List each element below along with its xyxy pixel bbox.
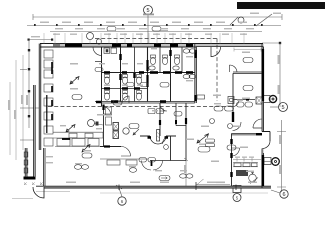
dimension line top with column dots	[27, 25, 281, 27]
left outer dim lines	[9, 82, 11, 155]
top wall poche segments	[53, 44, 193, 47]
circle tags	[87, 17, 245, 135]
door arc vestibule corner	[93, 47, 102, 56]
bubble bottom left	[118, 197, 126, 205]
dimension line top outer	[33, 14, 282, 20]
partition x170 storage room	[170, 136, 172, 161]
dim short left wing	[28, 39, 52, 41]
office dim line + office divider wall y72	[233, 72, 262, 73]
leader to title bar	[256, 14, 272, 26]
restroom stall wall mid	[102, 72, 195, 74]
toilets restrooms row1	[104, 75, 141, 101]
exam tables lower rooms	[159, 176, 170, 181]
door arc exam room	[246, 98, 249, 100]
room tag ovals	[72, 27, 253, 159]
sink counter right lower	[234, 163, 241, 167]
WALLS	[24, 44, 272, 199]
left dim tick	[20, 70, 40, 141]
door arc in top wall	[211, 47, 221, 57]
wall x186	[185, 103, 187, 161]
bottom wall ticks	[119, 182, 236, 190]
keynote flags (diagonal arrows)	[66, 77, 209, 153]
toilets mens	[150, 55, 179, 65]
cased opening wall y136 with arch and door leaf	[140, 135, 176, 137]
restroom west wall	[101, 47, 103, 107]
top exterior wall	[40, 43, 263, 45]
title bar (solid black)	[237, 2, 325, 9]
left dim line with dots	[28, 40, 30, 129]
right exterior wall	[262, 44, 264, 132]
left wall end poche	[24, 177, 36, 180]
dashed overhang line top	[95, 38, 217, 40]
FIXTURES	[74, 48, 257, 182]
bottom exterior wall	[36, 186, 271, 188]
door arc office	[230, 65, 238, 72]
break room south wall + door	[100, 146, 121, 148]
bottom mid room west wall	[44, 148, 46, 186]
detector circle right lower	[272, 158, 280, 166]
dashed corridor line	[48, 106, 233, 108]
witness lines top restrooms	[44, 33, 244, 44]
door arc kitchen	[104, 107, 111, 114]
dimension line top third	[50, 31, 262, 33]
casework row lower mid	[100, 158, 148, 160]
closet walls x176/y125.5	[176, 103, 186, 126]
left wall mid (step)	[34, 85, 36, 177]
INTERIOR WALLS	[48, 39, 233, 107]
partition wall x160	[159, 103, 161, 136]
chase boxes kitchen	[113, 123, 119, 131]
wall poche gray fills	[25, 44, 271, 188]
corridor north wall	[95, 102, 195, 104]
center spine wall	[195, 44, 197, 104]
small interior label specks	[60, 30, 254, 183]
sinks top restroom	[104, 48, 110, 54]
lower mid wall	[150, 160, 186, 162]
kitchen north wall stub	[103, 105, 105, 147]
janitor box at corridor end	[197, 95, 205, 99]
dashed vertical right	[216, 39, 218, 102]
detector circle right upper	[269, 95, 276, 102]
svg-text:5: 5	[281, 105, 284, 111]
grid bubble 6 bottom right	[280, 190, 288, 198]
restroom walls vertical	[120, 47, 122, 102]
entry door arc bottom left	[33, 187, 44, 198]
right wall jog + door	[262, 132, 270, 142]
left exterior wall upper	[39, 44, 41, 151]
casework row bottom rooms	[57, 139, 99, 147]
right dim line	[262, 42, 280, 44]
bottom dim leader line	[12, 192, 70, 199]
svg-text:5: 5	[146, 8, 149, 14]
grid bubble bottom-middle with square tag	[233, 186, 241, 193]
door arc corridor mid	[160, 104, 167, 111]
door arc right wall recess	[253, 119, 262, 128]
tiny dimension text specks	[8, 13, 281, 184]
kitchen counter lines	[53, 132, 103, 138]
svg-text:6: 6	[282, 192, 285, 198]
left wall lower	[25, 148, 27, 177]
casework column left wall	[44, 50, 53, 146]
grid bubble 5 top	[144, 6, 153, 15]
grid bubble 5 right	[279, 103, 288, 112]
